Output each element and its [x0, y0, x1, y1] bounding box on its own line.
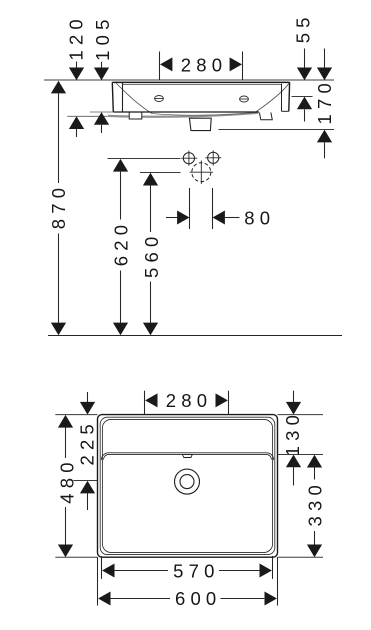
- svg-text:225: 225: [77, 419, 98, 465]
- svg-text:170: 170: [314, 78, 335, 124]
- svg-text:870: 870: [48, 183, 69, 229]
- svg-text:330: 330: [304, 480, 325, 526]
- svg-text:130: 130: [282, 410, 303, 456]
- svg-text:280: 280: [181, 54, 227, 75]
- svg-text:105: 105: [92, 14, 113, 60]
- svg-text:80: 80: [244, 207, 275, 228]
- svg-text:560: 560: [141, 232, 162, 278]
- svg-text:480: 480: [56, 457, 77, 503]
- svg-text:280: 280: [166, 390, 212, 411]
- svg-text:600: 600: [175, 588, 221, 609]
- svg-text:55: 55: [293, 12, 314, 43]
- svg-text:620: 620: [110, 220, 131, 266]
- svg-text:570: 570: [173, 561, 219, 582]
- svg-text:120: 120: [66, 14, 87, 60]
